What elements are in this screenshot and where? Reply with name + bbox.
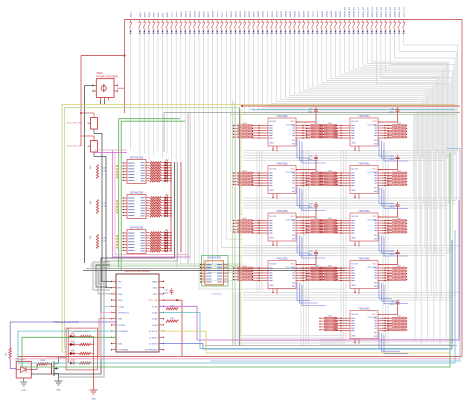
wire blue drop bbox=[384, 237, 408, 256]
diode D2 bbox=[139, 31, 141, 33]
diode D12 bbox=[184, 31, 186, 33]
svg-text:RXI: RXI bbox=[118, 288, 122, 290]
wire switch column fan bbox=[358, 34, 445, 246]
wire blue drop bbox=[379, 139, 392, 156]
wire row bundle bbox=[243, 252, 449, 254]
svg-text:S0 U24: S0 U24 bbox=[351, 314, 359, 316]
wire loop pro micro bbox=[96, 265, 110, 287]
diode D19 bbox=[216, 31, 218, 33]
svg-text:SW20: SW20 bbox=[96, 73, 103, 75]
svg-text:SW14: SW14 bbox=[194, 10, 196, 17]
svg-text:VCC: VCC bbox=[290, 216, 295, 218]
svg-text:16 MOSI: 16 MOSI bbox=[149, 344, 158, 346]
svg-text:SW38: SW38 bbox=[304, 10, 306, 17]
wire row bundle bbox=[243, 247, 456, 249]
wire row bundle bbox=[243, 205, 449, 207]
svg-text:SW12: SW12 bbox=[185, 10, 187, 17]
wire right edge +5V bbox=[461, 20, 463, 357]
wire cyan left up bbox=[18, 331, 116, 363]
svg-text:SW29: SW29 bbox=[263, 10, 265, 17]
wire encoder bottom pin2 bbox=[104, 100, 106, 104]
svg-text:20 A2: 20 A2 bbox=[152, 312, 158, 315]
wire routing loop bbox=[241, 292, 346, 336]
svg-text:100R: 100R bbox=[40, 360, 45, 362]
wire switch column bbox=[208, 34, 243, 273]
svg-text:SN74HC595: SN74HC595 bbox=[207, 256, 221, 259]
wire blue drop bbox=[382, 283, 401, 301]
svg-text:S0 U24: S0 U24 bbox=[269, 264, 277, 266]
svg-text:6 PWM A7: 6 PWM A7 bbox=[118, 330, 129, 333]
svg-text:SW16: SW16 bbox=[204, 10, 206, 17]
wire switch column bbox=[175, 34, 177, 269]
svg-text:SW25: SW25 bbox=[244, 10, 246, 17]
wire switch column fan bbox=[299, 34, 429, 206]
svg-text:SH: SH bbox=[292, 143, 295, 145]
wire row bundle bbox=[243, 294, 456, 296]
wire blue drop bbox=[300, 236, 319, 256]
wire gate node bbox=[10, 358, 16, 368]
svg-text:SW10: SW10 bbox=[176, 10, 178, 17]
diode D7 bbox=[162, 31, 164, 33]
svg-text:RotarieEncSWc: RotarieEncSWc bbox=[67, 122, 83, 125]
wire switch column fan bbox=[317, 34, 434, 342]
svg-text:GND: GND bbox=[118, 300, 123, 302]
svg-text:100n: 100n bbox=[389, 304, 394, 306]
svg-text:SH: SH bbox=[374, 238, 377, 240]
wire green grid b bbox=[234, 102, 236, 345]
svg-text:OE: OE bbox=[374, 140, 378, 142]
svg-text:GND: GND bbox=[351, 238, 356, 240]
svg-text:SW40: SW40 bbox=[313, 10, 315, 17]
svg-text:SW4: SW4 bbox=[149, 12, 151, 18]
svg-text:SW33: SW33 bbox=[281, 10, 283, 17]
svg-text:SH: SH bbox=[374, 286, 377, 288]
resistor array RN1 bbox=[150, 162, 161, 164]
svg-text:SN74HC595: SN74HC595 bbox=[130, 156, 144, 159]
diode D60 bbox=[403, 31, 405, 33]
svg-text:S0 U24: S0 U24 bbox=[269, 169, 277, 171]
svg-text:S0 U24: S0 U24 bbox=[351, 121, 359, 123]
svg-text:SW17: SW17 bbox=[208, 10, 210, 17]
svg-text:10k: 10k bbox=[90, 165, 92, 169]
wire row bundle bbox=[243, 292, 460, 294]
svg-text:SW26: SW26 bbox=[249, 10, 251, 17]
wire rx bbox=[106, 287, 112, 289]
wire switch column fan bbox=[331, 34, 438, 154]
wire switch column fan bbox=[326, 34, 436, 298]
svg-text:SW47_R1: SW47_R1 bbox=[345, 6, 347, 17]
wire row bundle bbox=[243, 250, 453, 252]
svg-text:SW37: SW37 bbox=[299, 10, 301, 17]
diode D57 bbox=[389, 31, 391, 33]
diode D32 bbox=[275, 31, 277, 33]
svg-text:74HC4051: 74HC4051 bbox=[276, 210, 288, 213]
wire row bundle bbox=[243, 150, 460, 152]
wire bus to sw1 bbox=[81, 112, 94, 114]
wire switch column fan bbox=[395, 34, 455, 156]
svg-text:OE: OE bbox=[292, 283, 296, 285]
wire cap feed bbox=[378, 257, 398, 265]
node pads U3 bbox=[116, 235, 118, 237]
wire sw2 out bbox=[94, 157, 106, 289]
svg-text:SW24: SW24 bbox=[240, 10, 242, 17]
wire cathode rail 1 bbox=[31, 162, 174, 374]
diode D30 bbox=[266, 31, 268, 33]
svg-text:GND: GND bbox=[153, 288, 158, 290]
wire cap feed bbox=[378, 162, 398, 170]
svg-text:19 A1: 19 A1 bbox=[152, 318, 158, 321]
svg-text:OE: OE bbox=[374, 235, 378, 237]
svg-text:GND: GND bbox=[351, 285, 356, 287]
diode D58 bbox=[394, 31, 396, 33]
wire cathode rail 2 bbox=[58, 162, 178, 377]
ground q1 bbox=[55, 380, 63, 382]
wire column bundle bbox=[308, 151, 310, 346]
wire blue drop bbox=[379, 234, 392, 251]
wire blue drop bbox=[300, 141, 319, 161]
svg-text:GND: GND bbox=[21, 390, 26, 392]
wire bus to encoder bbox=[81, 55, 125, 57]
wire switch column bbox=[157, 34, 159, 152]
svg-text:SW6: SW6 bbox=[158, 12, 160, 18]
svg-text:SW49_R1: SW49_R1 bbox=[354, 6, 356, 17]
svg-text:SW19: SW19 bbox=[217, 10, 219, 17]
svg-text:74HC4051: 74HC4051 bbox=[358, 210, 370, 213]
svg-text:10k: 10k bbox=[6, 352, 8, 356]
wire switch column fan bbox=[345, 34, 442, 301]
wire bottom bundle bbox=[320, 343, 450, 345]
svg-text:10k: 10k bbox=[90, 235, 92, 239]
wire pale green above grid bbox=[230, 114, 455, 116]
wire frame v2 bbox=[190, 113, 192, 267]
wire switch column bbox=[166, 34, 168, 154]
svg-text:GND: GND bbox=[56, 390, 61, 392]
svg-text:OE: OE bbox=[292, 188, 296, 190]
wire blue drop bbox=[382, 141, 401, 159]
diode D42 bbox=[321, 31, 323, 33]
wire green grid a bbox=[232, 100, 234, 345]
svg-text:SW43: SW43 bbox=[326, 10, 328, 17]
svg-text:TXO: TXO bbox=[118, 282, 123, 284]
wire switch column fan bbox=[349, 34, 442, 156]
diode D8 bbox=[166, 31, 168, 33]
diode D16 bbox=[202, 31, 204, 33]
wire switch column fan bbox=[340, 34, 440, 345]
resistor R7 bbox=[37, 363, 48, 365]
wire cap feed bbox=[378, 114, 398, 122]
svg-text:SN74HC595: SN74HC595 bbox=[130, 191, 144, 194]
diode D33 bbox=[280, 31, 282, 33]
wire switch column fan bbox=[285, 34, 425, 249]
svg-text:S0 U24: S0 U24 bbox=[351, 216, 359, 218]
svg-text:OE: OE bbox=[292, 140, 296, 142]
diode D45 bbox=[334, 31, 336, 33]
wire blue drop bbox=[302, 285, 326, 306]
svg-text:VCC: VCC bbox=[372, 169, 377, 171]
wire column bundle bbox=[387, 151, 389, 346]
wire switch column fan bbox=[295, 34, 428, 340]
node pads U2 bbox=[116, 200, 118, 202]
diode D50 bbox=[357, 31, 359, 33]
wire switch column fan bbox=[376, 34, 450, 249]
wire switch column fan bbox=[404, 34, 458, 151]
wire blue drop bbox=[300, 188, 319, 208]
svg-text:74HC4051: 74HC4051 bbox=[358, 308, 370, 311]
wire loop pro micro bbox=[99, 268, 110, 284]
wire red bus bottom bbox=[18, 356, 462, 358]
wire blue drop bbox=[382, 236, 401, 254]
svg-text:GND: GND bbox=[269, 190, 274, 192]
wire cap feed bbox=[378, 209, 398, 217]
wire row bundle bbox=[243, 255, 445, 257]
svg-text:74HC4051: 74HC4051 bbox=[276, 162, 288, 165]
svg-text:SH: SH bbox=[374, 336, 377, 338]
wire switch column bbox=[217, 34, 345, 256]
svg-text:OE: OE bbox=[374, 333, 378, 335]
wire encoder right bbox=[117, 87, 124, 89]
svg-text:S0 U24: S0 U24 bbox=[351, 169, 359, 171]
diode D14 bbox=[193, 31, 195, 33]
wire green left up bbox=[22, 337, 116, 367]
wire switch column bbox=[213, 34, 243, 265]
wire column bundle bbox=[345, 151, 347, 341]
wire magenta b bbox=[115, 153, 188, 255]
wire blue drop bbox=[384, 190, 408, 209]
svg-text:SW54_R1: SW54_R1 bbox=[376, 6, 378, 17]
wire cap feed bbox=[296, 114, 316, 122]
wire q1 source bbox=[58, 374, 60, 382]
diode D6 bbox=[157, 31, 159, 33]
node pads U1 bbox=[116, 165, 118, 167]
diode D5 bbox=[152, 31, 154, 33]
wire column bundle bbox=[300, 151, 302, 346]
wire blue drop bbox=[384, 285, 408, 304]
diode D10 bbox=[175, 31, 177, 33]
wire gnd1 bbox=[98, 269, 112, 294]
wire row bundle bbox=[243, 299, 449, 301]
wire routing loop bbox=[238, 292, 345, 338]
wire switch column bbox=[139, 34, 141, 157]
svg-text:RST: RST bbox=[153, 294, 158, 296]
node cap bus bbox=[241, 105, 243, 107]
wire row bundle bbox=[243, 245, 460, 247]
diode D39 bbox=[307, 31, 309, 33]
diode D47 bbox=[343, 31, 345, 33]
svg-text:SH: SH bbox=[374, 143, 377, 145]
svg-text:10 PWM A10: 10 PWM A10 bbox=[145, 349, 159, 352]
diode D59 bbox=[398, 31, 400, 33]
wire band dark bbox=[83, 270, 345, 272]
svg-text:S0 U24: S0 U24 bbox=[269, 121, 277, 123]
diode D48 bbox=[348, 31, 350, 33]
diode D35 bbox=[289, 31, 291, 33]
wire switch column bbox=[162, 34, 164, 159]
svg-text:SW18: SW18 bbox=[213, 10, 215, 17]
svg-text:SW30: SW30 bbox=[267, 10, 269, 17]
wire cap feed bbox=[378, 307, 398, 315]
wire switch column bbox=[240, 34, 243, 215]
wire sda bbox=[104, 306, 112, 363]
svg-text:GND: GND bbox=[118, 294, 123, 296]
wire switch column fan bbox=[354, 34, 444, 201]
svg-text:GND: GND bbox=[269, 238, 274, 240]
svg-text:SW20: SW20 bbox=[222, 10, 224, 17]
wire blue drop bbox=[302, 190, 326, 211]
svg-text:VCC: VCC bbox=[372, 216, 377, 218]
wire diode to resistor bbox=[31, 369, 37, 371]
diode D54 bbox=[375, 31, 377, 33]
resistor R5 bbox=[166, 320, 178, 322]
wire pink top bbox=[95, 149, 127, 151]
wire routing loop bbox=[236, 292, 346, 341]
wire switch column fan bbox=[267, 34, 420, 246]
diode D26 bbox=[248, 31, 250, 33]
svg-text:SH: SH bbox=[374, 191, 377, 193]
wire switch column bbox=[184, 34, 186, 261]
svg-text:GND: GND bbox=[269, 143, 274, 145]
wire scl bbox=[101, 313, 112, 359]
svg-text:VCC: VCC bbox=[372, 314, 377, 316]
svg-text:SW13: SW13 bbox=[190, 10, 192, 17]
diode D40 bbox=[312, 31, 314, 33]
diode D9 bbox=[171, 31, 173, 33]
wire green bus left bbox=[65, 108, 241, 349]
wire tx bbox=[102, 281, 112, 283]
svg-text:SW45: SW45 bbox=[336, 10, 338, 17]
wire switch column fan bbox=[258, 34, 417, 156]
wire band green bbox=[90, 265, 240, 267]
resistor R3 bbox=[96, 235, 98, 249]
wire bottom bundle bbox=[320, 341, 453, 343]
wire switch column bbox=[226, 34, 243, 240]
wire switch column fan bbox=[249, 34, 415, 342]
svg-text:9 PWM A9: 9 PWM A9 bbox=[118, 349, 129, 352]
svg-text:ARDUINO PRO MICRO: ARDUINO PRO MICRO bbox=[125, 270, 151, 273]
svg-text:SN74HC595: SN74HC595 bbox=[130, 226, 144, 229]
wire blue drop bbox=[300, 283, 319, 303]
wire bottom bundle bbox=[320, 339, 457, 341]
wire blue drop bbox=[384, 335, 408, 354]
wire frame v3 bbox=[163, 113, 165, 153]
wire switch column fan bbox=[290, 34, 426, 293]
svg-text:SH: SH bbox=[292, 191, 295, 193]
svg-text:SW7: SW7 bbox=[163, 12, 165, 18]
svg-text:VCC: VCC bbox=[290, 169, 295, 171]
svg-text:SW41: SW41 bbox=[317, 10, 319, 17]
wire blue drop bbox=[297, 139, 310, 158]
diode D15 bbox=[198, 31, 200, 33]
svg-text:GND: GND bbox=[351, 190, 356, 192]
svg-text:VCC: VCC bbox=[372, 121, 377, 123]
wire blue drop bbox=[297, 282, 310, 301]
svg-text:SW27: SW27 bbox=[254, 10, 256, 17]
wire r7 to gate bbox=[48, 364, 52, 367]
wire switch column bbox=[143, 34, 145, 155]
svg-text:SW11: SW11 bbox=[181, 11, 183, 18]
wire sw1 out bbox=[94, 134, 102, 283]
wire blue drop bbox=[302, 142, 326, 163]
led strip block LED1 bbox=[66, 328, 97, 370]
wire blue drop bbox=[382, 188, 401, 206]
node vcc bbox=[176, 299, 178, 301]
svg-text:SW46: SW46 bbox=[340, 10, 342, 17]
svg-text:GND: GND bbox=[91, 399, 96, 401]
wire switch column fan bbox=[322, 34, 435, 254]
svg-text:SW8: SW8 bbox=[167, 12, 169, 18]
wire blue drop bbox=[379, 187, 392, 204]
resistor R6 bbox=[9, 348, 11, 359]
wire blue drop bbox=[384, 142, 408, 161]
wire led cathode bus bbox=[93, 337, 95, 391]
svg-text:SW1: SW1 bbox=[131, 12, 133, 18]
diode D24 bbox=[239, 31, 241, 33]
wire encoder bottom pins bbox=[100, 100, 102, 104]
wire blue drop bbox=[297, 234, 310, 253]
wire switch column fan bbox=[372, 34, 449, 204]
svg-text:SW35: SW35 bbox=[290, 10, 292, 17]
wire switch column fan bbox=[263, 34, 419, 201]
svg-text:SW9: SW9 bbox=[172, 12, 174, 18]
wire magenta bus bbox=[159, 200, 459, 340]
wire band gray bbox=[86, 268, 345, 270]
svg-text:RAW: RAW bbox=[152, 281, 158, 284]
diode D53 bbox=[371, 31, 373, 33]
svg-text:SW55_R1: SW55_R1 bbox=[381, 6, 383, 17]
svg-text:18 A0: 18 A0 bbox=[152, 324, 158, 327]
svg-text:SW58_R1: SW58_R1 bbox=[395, 6, 397, 17]
wire gray bus bbox=[205, 345, 457, 347]
diode D18 bbox=[212, 31, 214, 33]
diode D52 bbox=[366, 31, 368, 33]
svg-text:S0 U24: S0 U24 bbox=[269, 216, 277, 218]
wire cyan bus bbox=[159, 313, 448, 349]
wire blue drop bbox=[302, 237, 326, 258]
wire cap feed bbox=[296, 209, 316, 217]
svg-text:VCC: VCC bbox=[290, 121, 295, 123]
svg-text:14 MISO: 14 MISO bbox=[149, 337, 158, 339]
diode D55 bbox=[380, 31, 382, 33]
node top bus junction bbox=[123, 54, 125, 56]
node sw1 feed bbox=[80, 112, 82, 114]
svg-text:S0 U24: S0 U24 bbox=[351, 264, 359, 266]
svg-text:SW44: SW44 bbox=[331, 10, 333, 17]
svg-text:SW56_R1: SW56_R1 bbox=[386, 6, 388, 17]
svg-text:10k: 10k bbox=[90, 200, 92, 204]
wire column bundle bbox=[343, 151, 345, 341]
wire switch column bbox=[231, 34, 243, 231]
svg-text:2 SDA: 2 SDA bbox=[118, 305, 125, 308]
svg-text:SW42: SW42 bbox=[322, 10, 324, 17]
svg-text:SW34: SW34 bbox=[285, 10, 287, 17]
wire column bundle bbox=[261, 151, 263, 293]
svg-text:74HC4051: 74HC4051 bbox=[358, 162, 370, 165]
svg-text:SW2: SW2 bbox=[140, 12, 142, 18]
wire row bundle bbox=[243, 152, 456, 154]
wire switch column fan bbox=[304, 34, 430, 251]
diode D28 bbox=[257, 31, 259, 33]
diode D25 bbox=[243, 31, 245, 33]
wire green pair b bbox=[121, 121, 185, 270]
diode D43 bbox=[325, 31, 327, 33]
wire encoder feed drop bbox=[80, 56, 82, 147]
svg-text:3 PWM SCL: 3 PWM SCL bbox=[118, 313, 131, 315]
wire cap feed bbox=[296, 162, 316, 170]
resistor R1 bbox=[96, 165, 98, 179]
wire +5V top bus bbox=[125, 19, 463, 21]
svg-text:VCC +5V: VCC +5V bbox=[148, 300, 158, 302]
svg-text:4 A6: 4 A6 bbox=[118, 318, 123, 321]
svg-text:15 SCLK: 15 SCLK bbox=[149, 331, 158, 333]
